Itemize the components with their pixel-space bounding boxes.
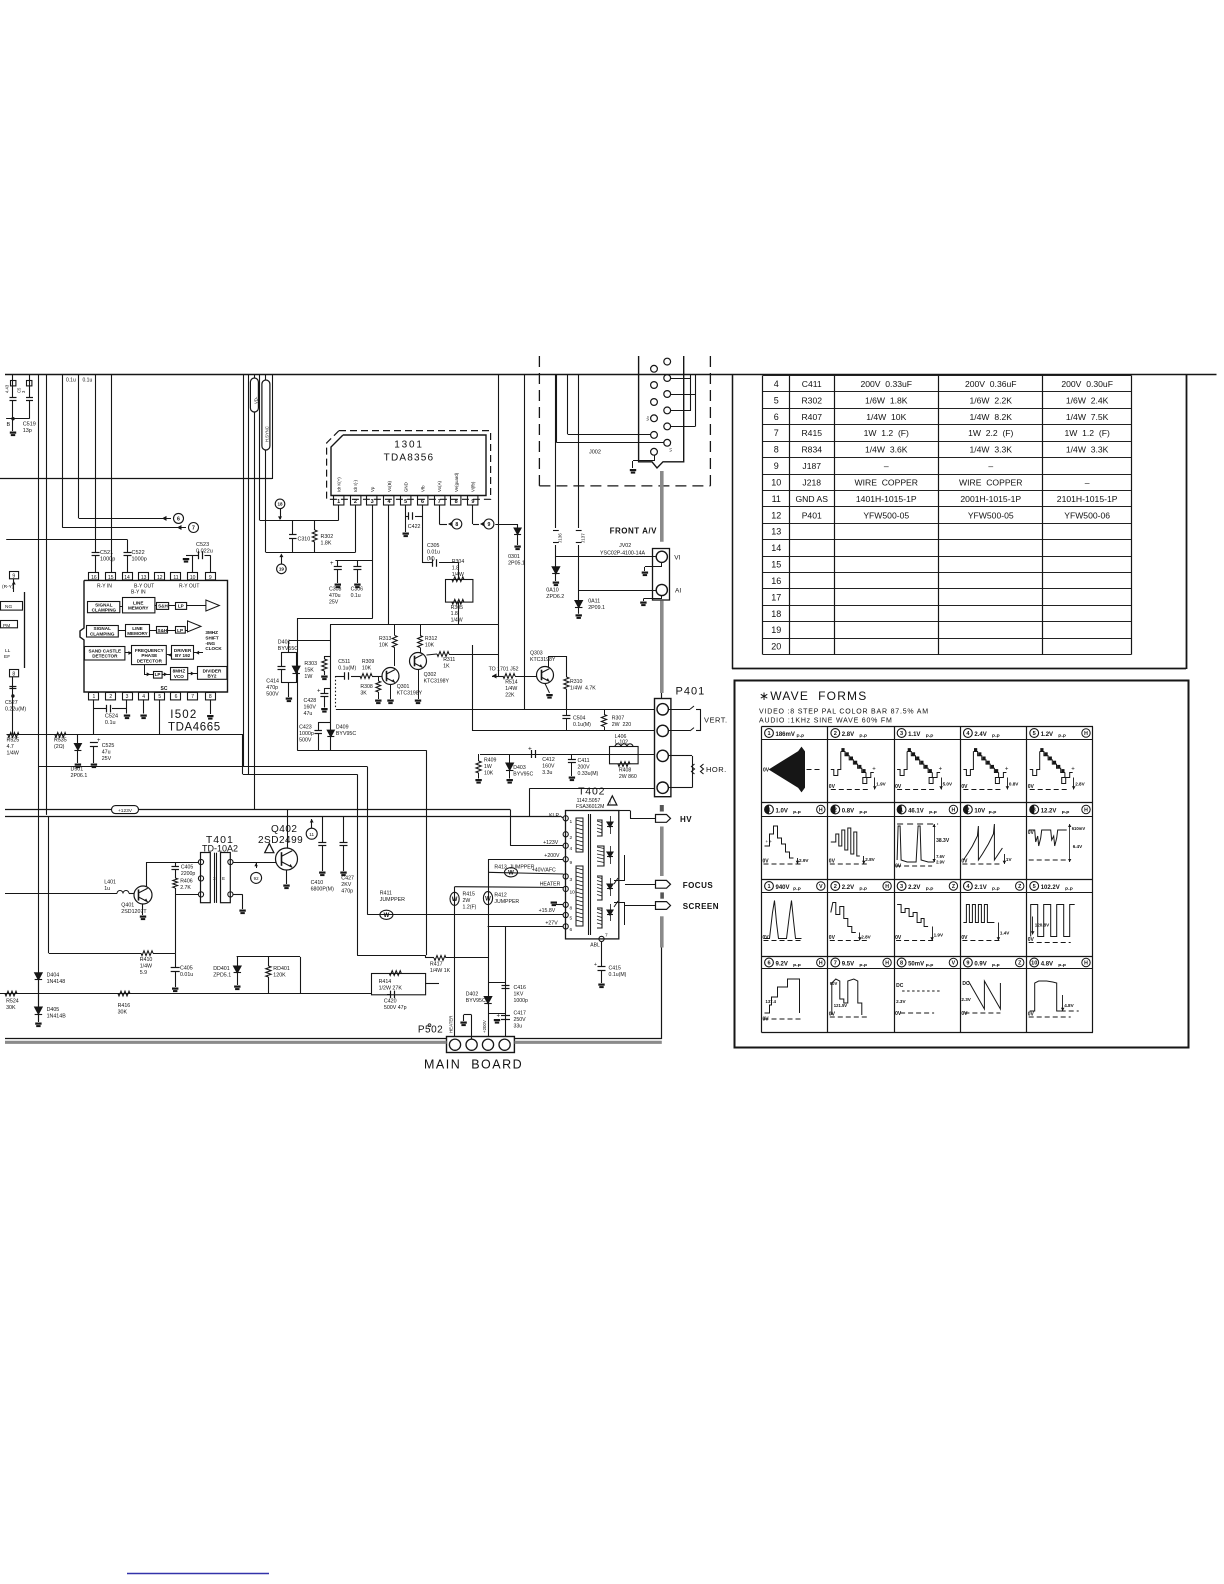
svg-text:H: H	[1084, 961, 1088, 967]
svg-text:0V: 0V	[829, 784, 836, 790]
svg-text:DC: DC	[896, 983, 904, 989]
svg-text:1.1V: 1.1V	[908, 732, 920, 738]
svg-text:LP: LP	[177, 628, 183, 633]
svg-text:7: 7	[192, 525, 195, 531]
svg-text:0.1u(M): 0.1u(M)	[609, 972, 627, 978]
svg-text:Idr I(-): Idr I(-)	[353, 480, 358, 492]
svg-text:1W 2.2 (F): 1W 2.2 (F)	[968, 428, 1013, 438]
svg-text:C415: C415	[609, 966, 622, 972]
svg-text:GND AS: GND AS	[796, 494, 829, 504]
svg-text:1.2(F): 1.2(F)	[463, 904, 477, 910]
svg-text:500V 47p: 500V 47p	[384, 1005, 407, 1011]
svg-text:ZPD6.2: ZPD6.2	[546, 594, 564, 600]
svg-text:0V: 0V	[1028, 784, 1035, 790]
svg-text:10K: 10K	[362, 665, 372, 671]
svg-text:200V 0.36uF: 200V 0.36uF	[965, 379, 1017, 389]
svg-text:D402: D402	[466, 992, 479, 998]
svg-text:10K: 10K	[484, 770, 494, 776]
svg-text:AUDIO :1KHz SINE WAVE 60% FM: AUDIO :1KHz SINE WAVE 60% FM	[759, 718, 893, 725]
svg-text:C521: C521	[100, 550, 113, 556]
svg-text:+: +	[1005, 767, 1009, 773]
svg-text:P-P: P-P	[929, 810, 937, 815]
svg-text:R406: R406	[180, 879, 193, 885]
svg-text:610mV: 610mV	[1072, 826, 1086, 831]
svg-text:+: +	[594, 962, 597, 968]
svg-text:KTC3198Y: KTC3198Y	[530, 657, 556, 663]
svg-text:16: 16	[771, 576, 781, 586]
svg-text:1V: 1V	[1006, 857, 1013, 862]
svg-text:5.0V: 5.0V	[943, 782, 953, 787]
svg-text:BY2: BY2	[208, 674, 217, 679]
svg-text:C417: C417	[514, 1011, 527, 1017]
svg-text:–: –	[884, 461, 889, 471]
svg-text:J137: J137	[580, 533, 585, 543]
svg-text:9: 9	[471, 499, 474, 505]
svg-text:WIRE COPPER: WIRE COPPER	[959, 477, 1023, 487]
svg-text:P-P: P-P	[793, 963, 801, 968]
svg-text:Vo: Vo	[645, 416, 650, 421]
svg-text:3MHZ: 3MHZ	[205, 630, 218, 635]
svg-text:C410: C410	[311, 880, 324, 886]
svg-text:C308: C308	[329, 587, 342, 593]
svg-text:1.0V: 1.0V	[776, 808, 788, 814]
svg-text:9: 9	[12, 573, 15, 579]
svg-text:Ve(guard): Ve(guard)	[454, 472, 459, 492]
svg-text:9: 9	[570, 860, 573, 866]
svg-text:P-P: P-P	[859, 810, 867, 815]
svg-text:JV02: JV02	[619, 543, 631, 549]
svg-text:940V: 940V	[776, 885, 790, 891]
svg-text:8: 8	[12, 671, 15, 677]
svg-text:P-P: P-P	[1065, 887, 1073, 892]
svg-text:–: –	[1085, 477, 1090, 487]
svg-text:W: W	[384, 913, 390, 919]
svg-text:R412: R412	[494, 893, 507, 899]
svg-text:B: B	[7, 422, 11, 428]
svg-text:50mV: 50mV	[908, 961, 924, 967]
svg-text:25V: 25V	[102, 756, 112, 762]
svg-text:Vo(A): Vo(A)	[437, 480, 442, 492]
svg-text:2P06.1: 2P06.1	[71, 773, 88, 779]
svg-text:1.9V: 1.9V	[934, 933, 944, 938]
svg-text:C306: C306	[351, 587, 364, 593]
svg-text:160V: 160V	[542, 763, 555, 769]
svg-text:160V: 160V	[304, 705, 317, 711]
svg-text:1/4W 3.6K: 1/4W 3.6K	[865, 445, 908, 455]
svg-text:200V 0.30uF: 200V 0.30uF	[1061, 379, 1113, 389]
svg-text:SC: SC	[161, 686, 168, 692]
svg-text:13: 13	[771, 527, 781, 537]
svg-text:TO 1701 J52: TO 1701 J52	[489, 666, 519, 672]
svg-text:P-P: P-P	[1062, 810, 1070, 815]
svg-text:0V: 0V	[1028, 1012, 1035, 1018]
svg-text:0V: 0V	[961, 935, 968, 941]
svg-text:15: 15	[771, 560, 781, 570]
svg-text:6: 6	[767, 961, 770, 967]
svg-text:!: !	[610, 800, 611, 805]
svg-text:1W 1.2 (F): 1W 1.2 (F)	[1064, 428, 1109, 438]
svg-text:WIRE COPPER: WIRE COPPER	[854, 477, 918, 487]
svg-text:2.9V: 2.9V	[936, 860, 945, 865]
svg-text:P-P: P-P	[859, 963, 867, 968]
svg-text:R411: R411	[380, 891, 392, 897]
svg-text:1301: 1301	[394, 440, 423, 451]
svg-text:E: E	[222, 876, 225, 881]
svg-text:1000p: 1000p	[299, 731, 314, 737]
svg-text:P-P: P-P	[992, 963, 1000, 968]
svg-text:47u: 47u	[102, 750, 111, 756]
svg-text:9: 9	[487, 522, 490, 528]
svg-text:P-P: P-P	[1058, 963, 1066, 968]
svg-text:1.9V: 1.9V	[876, 782, 886, 787]
svg-text:200V 0.33uF: 200V 0.33uF	[860, 379, 912, 389]
svg-text:2.3V: 2.3V	[896, 999, 906, 1004]
svg-text:9: 9	[774, 461, 779, 471]
svg-text:0A10: 0A10	[546, 588, 558, 594]
svg-text:H: H	[952, 808, 956, 814]
svg-text:R303: R303	[304, 661, 317, 667]
svg-text:(R-Y): (R-Y)	[2, 584, 14, 590]
svg-text:1: 1	[900, 808, 903, 814]
svg-text:+123V: +123V	[118, 808, 133, 814]
svg-text:R834: R834	[801, 445, 822, 455]
svg-text:0.8V: 0.8V	[842, 808, 854, 814]
svg-text:7: 7	[774, 428, 779, 438]
svg-text:AI: AI	[675, 588, 681, 595]
svg-text:5: 5	[404, 499, 407, 505]
svg-text:J002: J002	[589, 450, 601, 456]
svg-text:TDA4665: TDA4665	[168, 722, 221, 734]
svg-text:R302: R302	[321, 534, 334, 540]
svg-text:10V: 10V	[974, 808, 985, 814]
svg-text:VIDEO :8 STEP PAL COLOR BAR 87: VIDEO :8 STEP PAL COLOR BAR 87.5% AM	[759, 709, 929, 716]
svg-text:4.8V: 4.8V	[1041, 961, 1053, 967]
svg-text:1: 1	[767, 884, 770, 890]
svg-text:SHIFT: SHIFT	[205, 635, 218, 640]
svg-text:11: 11	[772, 494, 781, 504]
svg-text:1W: 1W	[304, 674, 312, 680]
svg-text:1.2V: 1.2V	[1041, 732, 1053, 738]
svg-text:JUMPPER: JUMPPER	[380, 897, 405, 903]
svg-text:C524: C524	[105, 714, 118, 720]
svg-text:6: 6	[774, 412, 779, 422]
svg-text:P-P: P-P	[992, 887, 1000, 892]
svg-text:1W 1.2 (F): 1W 1.2 (F)	[864, 428, 909, 438]
svg-text:2.9V: 2.9V	[799, 858, 809, 863]
svg-text:2W 220: 2W 220	[612, 722, 631, 728]
svg-text:2101H-1015-1P: 2101H-1015-1P	[1057, 494, 1118, 504]
svg-text:FRONT A/V: FRONT A/V	[610, 527, 657, 536]
svg-text:BYV95C: BYV95C	[513, 771, 533, 777]
svg-text:4.7: 4.7	[7, 744, 14, 750]
svg-text:2: 2	[570, 835, 573, 841]
svg-text:R305: R305	[451, 605, 464, 611]
svg-text:10K: 10K	[425, 642, 435, 648]
svg-text:46.1V: 46.1V	[908, 808, 924, 814]
svg-text:2.8V: 2.8V	[861, 935, 871, 940]
svg-text:H: H	[885, 961, 889, 967]
svg-text:7.6V: 7.6V	[936, 854, 945, 859]
svg-text:J136: J136	[558, 533, 563, 543]
svg-text:0.9V: 0.9V	[974, 961, 986, 967]
svg-text:1: 1	[767, 808, 770, 814]
svg-text:90V: 90V	[830, 981, 838, 986]
svg-text:P-P: P-P	[992, 734, 1000, 739]
svg-text:7: 7	[438, 499, 441, 505]
svg-text:+15.8V: +15.8V	[539, 908, 556, 914]
svg-text:16: 16	[91, 575, 97, 581]
svg-text:1/4W 8.2K: 1/4W 8.2K	[969, 412, 1012, 422]
svg-text:P-P: P-P	[926, 734, 934, 739]
svg-text:R416: R416	[118, 1003, 131, 1009]
svg-text:5: 5	[1033, 884, 1036, 890]
svg-text:D404: D404	[47, 973, 60, 979]
svg-text:6: 6	[177, 516, 180, 522]
svg-text:HEATER: HEATER	[540, 881, 561, 887]
svg-text:2.2V: 2.2V	[842, 885, 854, 891]
svg-text:470u: 470u	[329, 593, 341, 599]
svg-text:0.1u: 0.1u	[351, 593, 361, 599]
svg-text:200V: 200V	[578, 764, 591, 770]
svg-text:250V: 250V	[514, 1017, 527, 1023]
svg-text:1/4W 3.3K: 1/4W 3.3K	[969, 445, 1012, 455]
svg-text:15K: 15K	[304, 668, 314, 674]
svg-text:NG: NG	[5, 604, 12, 610]
svg-text:4.43: 4.43	[5, 384, 10, 393]
svg-text:1.4V: 1.4V	[1000, 931, 1010, 936]
svg-text:PM: PM	[3, 623, 10, 629]
svg-text:GND: GND	[404, 482, 409, 492]
svg-text:R302: R302	[801, 395, 822, 405]
svg-text:470p: 470p	[266, 685, 278, 691]
svg-text:VI: VI	[674, 555, 680, 562]
svg-text:1: 1	[767, 731, 770, 737]
svg-text:0V: 0V	[1028, 937, 1035, 943]
svg-text:1KV: 1KV	[514, 991, 524, 997]
svg-text:500V: 500V	[266, 692, 279, 698]
svg-text:(M): (M)	[427, 556, 435, 562]
svg-text:1/4W 4.7K: 1/4W 4.7K	[570, 685, 596, 691]
svg-text:S&H: S&H	[158, 604, 168, 609]
svg-text:R-Y IN: R-Y IN	[97, 584, 112, 590]
svg-text:137.4: 137.4	[766, 999, 777, 1004]
svg-text:C411: C411	[802, 379, 822, 389]
svg-text:Q303: Q303	[530, 651, 543, 657]
svg-text:0V: 0V	[829, 935, 836, 941]
svg-text:0V: 0V	[763, 859, 770, 865]
svg-text:YSC02P-4100-14A: YSC02P-4100-14A	[600, 551, 646, 557]
svg-text:H: H	[819, 961, 823, 967]
svg-text:121.5V: 121.5V	[834, 1003, 847, 1008]
svg-text:+27V: +27V	[545, 920, 558, 926]
svg-text:3: 3	[900, 884, 903, 890]
svg-text:2.7K: 2.7K	[180, 885, 191, 891]
svg-text:1u: 1u	[104, 886, 110, 892]
svg-text:12: 12	[157, 575, 163, 581]
svg-text:R-Y OUT: R-Y OUT	[179, 584, 199, 590]
svg-text:∗WAVE FORMS: ∗WAVE FORMS	[759, 689, 867, 703]
svg-text:S&H: S&H	[158, 628, 168, 633]
svg-text:C414: C414	[266, 679, 279, 685]
svg-text:C525: C525	[102, 743, 115, 749]
svg-text:1401H-1015-1P: 1401H-1015-1P	[856, 494, 917, 504]
svg-text:R410: R410	[140, 957, 153, 963]
svg-text:47u: 47u	[304, 711, 313, 717]
svg-text:R312: R312	[425, 636, 438, 642]
svg-text:2P09.1: 2P09.1	[588, 605, 605, 611]
svg-text:5: 5	[570, 916, 573, 922]
svg-text:P-P: P-P	[1058, 734, 1066, 739]
svg-text:1/4W: 1/4W	[140, 964, 152, 970]
svg-text:186mV: 186mV	[776, 732, 795, 738]
svg-text:VD-: VD-	[254, 396, 259, 404]
svg-text:13: 13	[141, 575, 147, 581]
svg-text:+200V: +200V	[544, 853, 560, 859]
svg-text:V: V	[952, 961, 956, 967]
svg-text:J218: J218	[802, 477, 821, 487]
svg-text:R524: R524	[6, 999, 19, 1005]
svg-text:1/4W 7.5K: 1/4W 7.5K	[1066, 412, 1109, 422]
svg-text:2W: 2W	[463, 898, 471, 904]
svg-text:YFW500-06: YFW500-06	[1064, 510, 1110, 520]
svg-text:1000p: 1000p	[132, 557, 147, 563]
svg-text:2.1V: 2.1V	[974, 885, 986, 891]
svg-text:1: 1	[570, 819, 573, 825]
svg-text:0V: 0V	[895, 935, 902, 941]
svg-text:6.4V: 6.4V	[1073, 844, 1083, 849]
svg-text:R415: R415	[801, 428, 822, 438]
svg-text:P-P: P-P	[926, 963, 934, 968]
svg-text:MEMORY: MEMORY	[128, 606, 149, 611]
svg-text:1.8: 1.8	[451, 611, 458, 617]
svg-text:C405: C405	[181, 865, 194, 871]
svg-text:DETECTOR: DETECTOR	[137, 658, 163, 663]
svg-text:VERT.: VERT.	[704, 716, 728, 725]
svg-text:120K: 120K	[273, 973, 286, 979]
svg-text:3: 3	[126, 694, 129, 700]
svg-text:VI: VI	[668, 448, 673, 452]
svg-text:H: H	[819, 808, 823, 814]
svg-text:1N414B: 1N414B	[47, 1014, 67, 1020]
svg-text:102.2V: 102.2V	[1041, 885, 1060, 891]
svg-text:2: 2	[966, 808, 969, 814]
svg-text:C310: C310	[298, 537, 311, 543]
svg-text:1/4W: 1/4W	[7, 751, 19, 757]
svg-text:C416: C416	[514, 985, 527, 991]
svg-text:RD401: RD401	[273, 966, 290, 972]
svg-text:P-P: P-P	[989, 810, 997, 815]
svg-text:Q302: Q302	[424, 672, 437, 678]
svg-text:1/4W: 1/4W	[451, 618, 463, 624]
svg-text:10: 10	[771, 477, 781, 487]
svg-text:18: 18	[277, 502, 283, 507]
svg-text:C411: C411	[578, 758, 590, 764]
svg-text:12: 12	[771, 510, 781, 520]
svg-text:7: 7	[834, 961, 837, 967]
svg-text:20: 20	[771, 642, 781, 652]
svg-text:C522: C522	[132, 550, 145, 556]
svg-text:W: W	[485, 896, 491, 902]
svg-text:R514: R514	[505, 680, 518, 686]
svg-text:H: H	[885, 884, 889, 890]
svg-text:2: 2	[834, 731, 837, 737]
svg-text:H.SYNC: H.SYNC	[265, 426, 270, 442]
svg-text:Vfb: Vfb	[420, 485, 425, 492]
svg-text:HV: HV	[680, 815, 692, 824]
svg-text:P401: P401	[676, 686, 706, 698]
svg-text:1/6W 2.4K: 1/6W 2.4K	[1066, 395, 1109, 405]
svg-text:0V: 0V	[763, 768, 770, 774]
svg-text:C427: C427	[341, 876, 354, 882]
svg-text:0.33u(M): 0.33u(M)	[578, 771, 599, 777]
svg-text:R311: R311	[443, 657, 455, 663]
svg-text:3K: 3K	[360, 690, 367, 696]
svg-text:1000p: 1000p	[514, 998, 529, 1004]
svg-text:C423: C423	[299, 725, 312, 731]
svg-text:7: 7	[605, 933, 608, 939]
svg-text:4: 4	[142, 694, 145, 700]
svg-text:P-P: P-P	[793, 810, 801, 815]
svg-text:+200V: +200V	[482, 1020, 487, 1033]
svg-text:SCREEN: SCREEN	[683, 902, 719, 911]
svg-text:0.1u: 0.1u	[83, 378, 93, 384]
svg-text:H: H	[1084, 808, 1088, 814]
svg-text:VCO: VCO	[174, 674, 184, 679]
svg-text:R304: R304	[452, 559, 465, 565]
svg-text:10: 10	[570, 889, 576, 895]
svg-text:BYV95C: BYV95C	[336, 731, 356, 737]
svg-text:6: 6	[570, 927, 573, 933]
svg-text:6: 6	[421, 499, 424, 505]
svg-text:R308: R308	[360, 684, 373, 690]
svg-text:0.01u: 0.01u	[180, 972, 193, 978]
svg-text:500V: 500V	[299, 738, 312, 744]
svg-text:+: +	[1071, 767, 1075, 773]
svg-text:Idr K(+): Idr K(+)	[336, 477, 341, 492]
svg-text:1: 1	[93, 694, 96, 700]
svg-text:J187: J187	[802, 461, 821, 471]
svg-text:0.1u: 0.1u	[105, 720, 116, 726]
svg-text:2.8V: 2.8V	[1075, 782, 1085, 787]
svg-text:19: 19	[279, 567, 285, 572]
svg-text:+: +	[97, 738, 101, 744]
svg-text:8: 8	[209, 694, 212, 700]
svg-text:5: 5	[774, 395, 779, 405]
svg-text:P-P: P-P	[859, 887, 867, 892]
svg-text:R414: R414	[379, 979, 392, 985]
svg-text:W: W	[452, 897, 458, 903]
svg-text:+: +	[872, 767, 876, 773]
svg-text:30K: 30K	[6, 1005, 16, 1011]
svg-text:2200p: 2200p	[181, 871, 196, 877]
svg-text:120.8V: 120.8V	[1035, 923, 1050, 928]
svg-text:30K: 30K	[118, 1010, 128, 1016]
svg-text:C523: C523	[196, 542, 209, 548]
svg-text:25V: 25V	[329, 599, 339, 605]
svg-text:Q402: Q402	[271, 824, 297, 835]
svg-text:T402: T402	[578, 786, 605, 798]
svg-text:FSA36012M: FSA36012M	[576, 804, 604, 810]
svg-text:2001H-1015-1P: 2001H-1015-1P	[960, 494, 1021, 504]
svg-text:JUMPPER: JUMPPER	[494, 899, 519, 905]
svg-text:R408: R408	[619, 768, 632, 774]
svg-text:1N4148: 1N4148	[47, 979, 66, 985]
svg-text:P-P: P-P	[926, 887, 934, 892]
svg-text:0V: 0V	[895, 1011, 902, 1017]
svg-text:0.8V: 0.8V	[1009, 782, 1019, 787]
svg-text:C422: C422	[408, 524, 421, 530]
svg-text:15: 15	[108, 575, 114, 581]
